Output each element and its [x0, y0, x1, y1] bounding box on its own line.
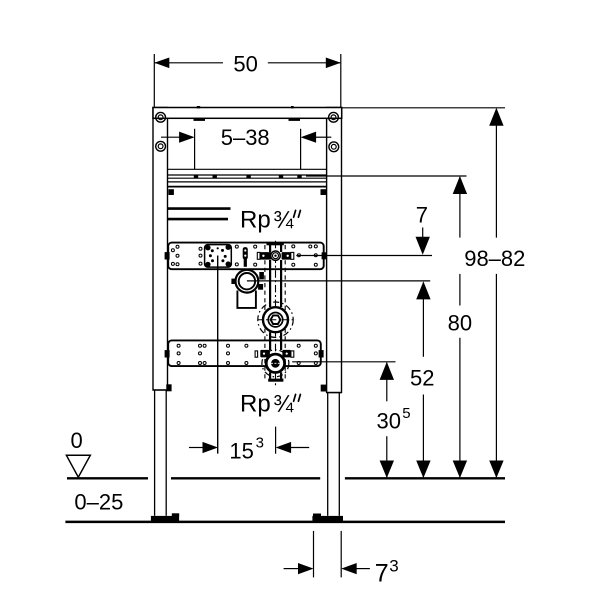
svg-text:7: 7 [416, 203, 428, 228]
svg-text:5: 5 [402, 405, 410, 422]
svg-text:3: 3 [389, 556, 398, 575]
svg-text:¾: ¾ [273, 390, 294, 417]
svg-text:80: 80 [448, 311, 472, 336]
svg-text:50: 50 [233, 52, 257, 77]
svg-text:0: 0 [70, 428, 82, 453]
svg-text:3: 3 [256, 435, 264, 452]
svg-text:¾: ¾ [273, 206, 294, 233]
svg-text:Rp: Rp [240, 206, 271, 233]
svg-text:5–38: 5–38 [221, 125, 270, 150]
svg-text:Rp: Rp [240, 390, 271, 417]
svg-text:15: 15 [229, 438, 253, 463]
svg-text:52: 52 [410, 366, 434, 391]
svg-text:30: 30 [377, 409, 401, 434]
svg-text:0–25: 0–25 [74, 489, 123, 514]
svg-text:7: 7 [375, 560, 389, 588]
svg-text:98–82: 98–82 [464, 246, 525, 271]
